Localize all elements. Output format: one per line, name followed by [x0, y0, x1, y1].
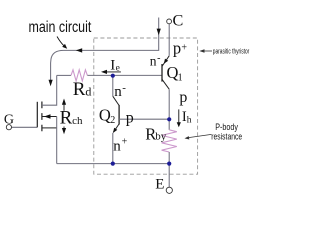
arrow: main circuit label pointer [57, 37, 64, 46]
label: n+ lower column [113, 136, 127, 154]
wire: Rby to bottom rail [168, 152, 170, 164]
label: n- mid column [114, 82, 126, 100]
arrowhead: Q2 emitter [113, 128, 117, 133]
label: Rd [73, 79, 92, 100]
label: Rby [145, 124, 166, 143]
wire: MOSFET gate lead from G [12, 126, 38, 128]
svg-text:d: d [85, 84, 91, 98]
transistor Q2 collector slant [113, 96, 119, 105]
svg-text:G: G [4, 113, 14, 128]
dashed box: parasitic thyristor boundary [94, 38, 198, 174]
arrow: Rch span upper [63, 104, 65, 111]
terminal C circle [167, 19, 172, 24]
svg-text:2: 2 [110, 115, 115, 126]
node: rail-left junction dot [111, 162, 115, 166]
wire: node B to Rby [168, 119, 170, 130]
MOSFET gate bar [36, 102, 38, 128]
label: Rch [60, 107, 83, 128]
svg-text:Q: Q [99, 106, 111, 125]
svg-text:n: n [113, 138, 121, 154]
wire: E terminal drop [168, 164, 170, 188]
arrowhead: parasitic thyristor tip [199, 49, 204, 53]
svg-text:n: n [114, 84, 122, 100]
arrow: Ie current [105, 71, 121, 73]
svg-text:-: - [157, 53, 160, 64]
svg-text:R: R [73, 79, 86, 100]
terminal G circle [6, 125, 11, 130]
wire: node A down to Q2 collector [112, 75, 114, 96]
svg-text:+: + [181, 42, 187, 53]
arrowhead: current left on main loop horizontal [76, 48, 82, 52]
node: rail-right junction dot [167, 162, 171, 166]
wire: MOSFET drain stub and drain vertical [42, 75, 57, 105]
arrowhead: Ie left [101, 70, 107, 74]
svg-text:C: C [173, 13, 184, 30]
transistor Q1 base bar [161, 64, 163, 82]
arrowhead: main loop end pointing down [49, 80, 53, 86]
node B junction dot [167, 117, 171, 121]
svg-text:main circuit: main circuit [29, 19, 92, 36]
svg-text:-: - [122, 82, 126, 94]
svg-text:R: R [60, 107, 73, 128]
svg-text:n: n [150, 54, 157, 69]
label: Ih [182, 109, 192, 125]
svg-text:by: by [155, 131, 167, 143]
svg-text:I: I [110, 57, 115, 73]
svg-text:h: h [187, 116, 192, 126]
arrowhead: Rch down [62, 128, 66, 134]
arrowhead: Rch up [62, 99, 66, 105]
label: p+ [173, 39, 188, 58]
svg-text:+: + [122, 136, 128, 147]
label: n- at Q1 [150, 53, 161, 69]
wire: Q1 collector down to node B [168, 89, 170, 119]
wire: bottom emitter rail [57, 163, 170, 165]
resistor Rby zigzag [162, 130, 177, 152]
svg-text:p: p [179, 89, 187, 106]
arrowhead: Ih down [177, 122, 181, 127]
wire: Q2 emitter down to rail [112, 133, 114, 164]
label: Q1 [167, 63, 183, 84]
wire: source vertical down to emitter rail [56, 117, 58, 164]
wire: Rd horizontal run left segment [57, 74, 71, 76]
arrow: P-body resistance pointer [189, 134, 212, 137]
MOSFET source stub [42, 127, 57, 129]
arrowhead: label pointer tip [62, 44, 67, 49]
transistor Q1 emitter slant [162, 56, 169, 67]
svg-text:ch: ch [72, 115, 83, 127]
arrowhead: MOSFET body arrow [44, 114, 51, 118]
terminal E circle [166, 187, 172, 193]
wire: main circuit external loop [51, 18, 159, 81]
arrow: Ih current [178, 109, 180, 123]
svg-text:parasitic thyristor: parasitic thyristor [213, 46, 250, 55]
transistor Q1 collector slant [162, 79, 169, 89]
arrowhead: Q1 emitter [164, 59, 168, 64]
label: Ie [110, 57, 120, 73]
arrowhead: current down on main loop vertical [157, 29, 161, 36]
svg-text:p: p [126, 109, 134, 126]
arrowhead: P-body pointer tip [185, 136, 190, 139]
wire: Rd to Q1 base [87, 74, 162, 76]
MOSFET body stub [43, 116, 57, 118]
resistor Rd zigzag [71, 70, 87, 81]
arrow: parasitic thyristor pointer [204, 50, 212, 52]
node A junction dot [111, 74, 115, 78]
wire: Q2 base to node B [119, 118, 169, 120]
transistor Q2 base bar [118, 105, 120, 125]
svg-text:1: 1 [178, 73, 183, 84]
transistor Q2 emitter slant [113, 124, 119, 132]
MOSFET channel bar segments [41, 102, 43, 132]
label: P-body resistance [211, 122, 242, 142]
label: Q2 [99, 106, 115, 127]
svg-text:resistance: resistance [211, 131, 242, 142]
svg-text:p: p [173, 39, 181, 58]
svg-text:E: E [155, 177, 164, 193]
arrow: Rch span lower [63, 127, 65, 130]
wire: Q1 emitter up to C [168, 24, 170, 56]
